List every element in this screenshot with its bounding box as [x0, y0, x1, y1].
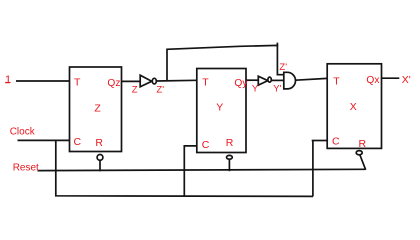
R bubble of X: [356, 151, 362, 155]
svg-text:Qz: Qz: [107, 78, 120, 89]
flip-flop X box: [327, 64, 381, 149]
svg-text:T: T: [202, 76, 209, 88]
wire Qx to X': [382, 77, 400, 79]
svg-text:R: R: [95, 137, 103, 149]
wire Qz to inverter U1: [122, 80, 141, 82]
clock riser to C of Y: [184, 146, 197, 196]
wire Y' to AND gate: [271, 79, 284, 81]
flip-flop Z box: [70, 67, 122, 152]
reset stub to R of Z: [99, 160, 101, 172]
label 1 base serif: [5, 82, 10, 84]
wire to C of X: [312, 140, 328, 142]
svg-text:C: C: [332, 136, 340, 148]
svg-text:Reset: Reset: [13, 163, 39, 174]
svg-text:Y: Y: [252, 84, 259, 95]
wire input 1 to T of Z: [16, 80, 70, 82]
inverter U2 triangle: [258, 76, 268, 85]
svg-text:Qx: Qx: [366, 75, 379, 86]
reset diagonal stub to R of X: [360, 154, 366, 169]
R bubble of Z: [97, 155, 103, 161]
svg-text:Z': Z': [279, 62, 287, 73]
inverter U1 bubble: [152, 78, 156, 84]
R bubble of Y: [227, 155, 233, 159]
svg-text:Y: Y: [216, 102, 223, 114]
clock riser to C of X: [312, 141, 314, 197]
inverter U1 triangle: [140, 75, 152, 87]
svg-text:Z: Z: [94, 103, 101, 115]
svg-text:T: T: [333, 76, 340, 88]
reset stub to R of Y: [228, 159, 230, 171]
svg-text:Qy: Qy: [234, 78, 248, 89]
svg-text:R: R: [226, 137, 234, 149]
svg-text:Z': Z': [156, 85, 164, 96]
wire Reset bus: [38, 169, 366, 170]
svg-text:C: C: [74, 136, 82, 148]
svg-text:X': X': [402, 74, 411, 86]
svg-text:Clock: Clock: [10, 126, 36, 137]
wire Clock to C of Z: [18, 139, 70, 141]
svg-text:R: R: [359, 138, 367, 150]
svg-text:X: X: [350, 101, 357, 113]
svg-text:C: C: [202, 139, 210, 151]
wire Qy to inverter U2: [246, 79, 259, 81]
svg-text:T: T: [74, 77, 81, 89]
svg-text:Y': Y': [273, 84, 281, 95]
feedback corner overshoot tick: [276, 43, 278, 46]
feedback wire Z' loop: [167, 45, 284, 80]
clock wire drop and bottom bus: [56, 140, 313, 196]
wire AND output to T of X: [296, 78, 328, 80]
inverter U2 bubble: [268, 77, 271, 82]
AND gate U3: [284, 72, 296, 89]
flip-flop Y box: [197, 69, 246, 153]
wire Z' to T of Y: [157, 79, 197, 82]
svg-text:1: 1: [5, 74, 11, 86]
svg-text:Z: Z: [132, 85, 138, 96]
